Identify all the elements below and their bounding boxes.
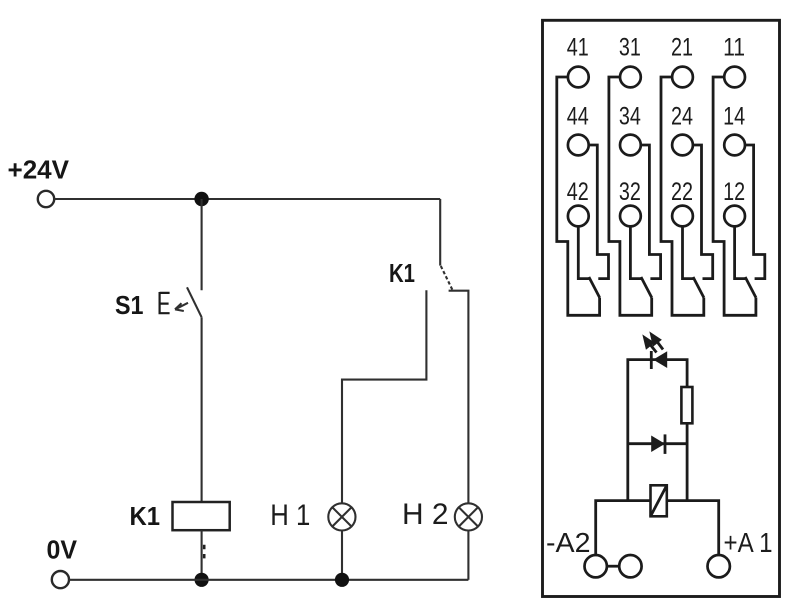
wire NO contact 34 bbox=[641, 145, 661, 279]
wire branch to H1 bbox=[342, 290, 426, 503]
svg-text:H 2: H 2 bbox=[402, 498, 449, 531]
switch S1 actuator arrow bbox=[175, 303, 188, 311]
relay coil symbol bbox=[651, 485, 667, 516]
svg-text:H 1: H 1 bbox=[270, 499, 310, 532]
terminal 0V bbox=[52, 571, 69, 588]
wire diode row bbox=[628, 442, 687, 445]
wire NC contact 22 bbox=[683, 226, 694, 278]
wire NC contact 12 bbox=[735, 226, 746, 278]
svg-text:K1: K1 bbox=[130, 501, 161, 531]
terminal 44 bbox=[568, 135, 589, 156]
terminal 42 bbox=[568, 206, 589, 227]
wire common 31 bbox=[609, 77, 652, 315]
wire S1 upper bbox=[201, 199, 203, 290]
wire coil K1 to 0V rail bbox=[201, 530, 203, 580]
lamp H1 bbox=[328, 503, 355, 530]
contact blade 41 movable bbox=[589, 277, 600, 298]
wire contact K1 output bbox=[449, 291, 469, 504]
terminal 22 bbox=[672, 206, 693, 227]
svg-text:32: 32 bbox=[619, 178, 641, 206]
wire coil row right / drop to A1 bbox=[667, 501, 719, 555]
terminal 41 bbox=[568, 67, 589, 88]
terminal 14 bbox=[724, 135, 745, 156]
contact blade 31 movable bbox=[641, 277, 652, 298]
svg-text:12: 12 bbox=[723, 178, 745, 206]
wire common 21 bbox=[661, 77, 704, 315]
terminal 34 bbox=[620, 135, 641, 156]
svg-text:44: 44 bbox=[567, 103, 589, 131]
terminal A2 bridge link bbox=[607, 565, 619, 568]
wire NO contact 14 bbox=[745, 145, 765, 279]
wire LED row bbox=[628, 360, 687, 501]
switch S1 blade (NO pushbutton) bbox=[187, 287, 202, 317]
wire S1 to coil K1 bbox=[201, 317, 203, 502]
svg-text:21: 21 bbox=[671, 34, 693, 62]
svg-text:41: 41 bbox=[567, 34, 589, 62]
LED emission arrows bbox=[645, 335, 664, 353]
contact blade 21 movable bbox=[693, 277, 704, 298]
terminal 24 bbox=[672, 135, 693, 156]
contact K1 blade (NO) bbox=[441, 266, 453, 290]
svg-text:42: 42 bbox=[567, 178, 589, 206]
svg-text:31: 31 bbox=[619, 34, 641, 62]
terminal A2 second bbox=[619, 555, 641, 577]
diode V1 (flyback) bbox=[651, 434, 665, 454]
wire NC contact 42 bbox=[578, 226, 589, 278]
terminal 32 bbox=[620, 206, 641, 227]
svg-text:34: 34 bbox=[619, 103, 641, 131]
wire H1 to 0V rail bbox=[341, 531, 343, 580]
terminal 11 bbox=[724, 67, 745, 88]
terminal +A1 bbox=[708, 555, 730, 577]
svg-text:+24V: +24V bbox=[8, 155, 70, 185]
label E actuator bbox=[160, 292, 170, 314]
junction node coil/0V rail bbox=[195, 573, 209, 587]
junction node +24V/S1 bbox=[194, 192, 208, 206]
wire 0V rail bbox=[69, 579, 468, 581]
lamp H2 bbox=[455, 503, 482, 530]
mechanical link dashes below coil bbox=[203, 545, 206, 559]
svg-text:-A2: -A2 bbox=[546, 527, 591, 558]
relay module outline box bbox=[543, 20, 780, 596]
wire NC contact 32 bbox=[630, 226, 641, 278]
svg-text:0V: 0V bbox=[47, 535, 78, 565]
wire NO contact 44 bbox=[589, 145, 609, 279]
terminal -A2 bbox=[585, 555, 607, 577]
wire H2 to 0V rail bbox=[467, 531, 469, 580]
wire common 11 bbox=[713, 77, 756, 315]
terminal 31 bbox=[620, 67, 641, 88]
terminal +24V bbox=[38, 191, 54, 207]
svg-text:K1: K1 bbox=[389, 258, 415, 288]
terminal 21 bbox=[672, 67, 693, 88]
svg-text:S1: S1 bbox=[115, 290, 144, 320]
svg-text:+A 1: +A 1 bbox=[724, 527, 773, 558]
relay coil K1 bbox=[173, 502, 230, 530]
wire coil row left / drop to A2 bbox=[596, 501, 651, 555]
resistor R1 bbox=[681, 387, 692, 423]
wire common 41 bbox=[557, 77, 600, 315]
svg-text:14: 14 bbox=[723, 103, 745, 131]
terminal 12 bbox=[724, 206, 745, 227]
svg-text:11: 11 bbox=[723, 34, 745, 62]
junction node H1/0V rail bbox=[335, 573, 349, 587]
svg-text:22: 22 bbox=[671, 178, 693, 206]
svg-text:24: 24 bbox=[671, 103, 693, 131]
wire resistor to coil row bbox=[686, 423, 689, 500]
wire contact K1 upper bbox=[439, 199, 441, 266]
LED D1 bbox=[651, 351, 667, 369]
wire +24V rail bbox=[54, 198, 440, 200]
contact blade 11 movable bbox=[745, 277, 756, 298]
wire NO contact 24 bbox=[693, 145, 713, 279]
